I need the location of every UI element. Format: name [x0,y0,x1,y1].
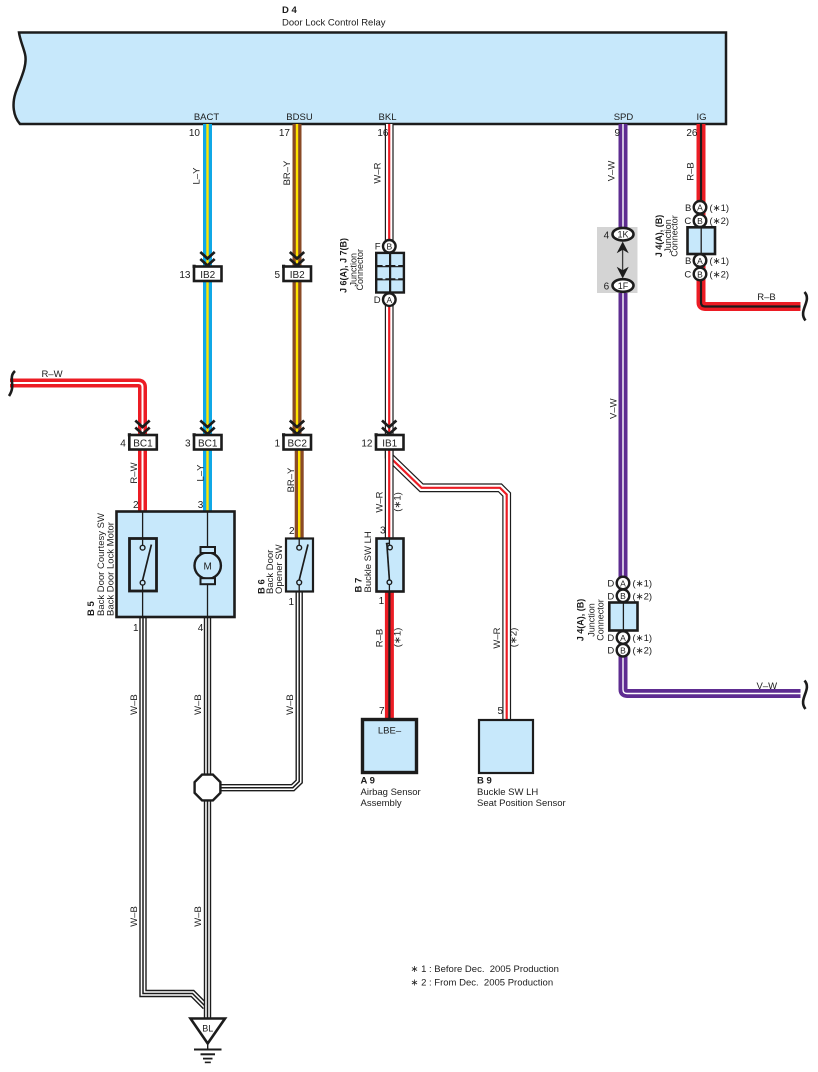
svg-text:∗ 2 : From Dec. 2005 Producti: ∗ 2 : From Dec. 2005 Production [411,978,554,989]
svg-text:R–W: R–W [41,369,62,380]
svg-text:(∗2): (∗2) [710,270,730,281]
svg-text:2: 2 [133,500,139,511]
svg-text:(∗1): (∗1) [633,579,653,590]
svg-text:B: B [620,591,626,601]
svg-text:17: 17 [279,128,291,139]
svg-text:SPD: SPD [614,112,634,123]
wire R-B IG column [701,124,801,307]
wire W-B from B6 pin1 to octagon [221,592,300,788]
svg-text:B: B [697,269,703,279]
svg-text:R–B: R–B [375,629,386,647]
svg-text:BDSU: BDSU [286,112,313,123]
svg-text:7: 7 [379,706,385,717]
svg-text:D: D [607,591,614,602]
svg-text:BC2: BC2 [287,439,307,450]
A9 Airbag Sensor Assembly [361,720,421,810]
svg-text:W–B: W–B [285,694,296,715]
svg-text:W–R: W–R [373,162,384,183]
svg-text:D 4: D 4 [282,5,298,16]
svg-text:5: 5 [497,706,503,717]
svg-text:∗ 1 : Before Dec. 2005 Produc: ∗ 1 : Before Dec. 2005 Production [411,964,559,975]
svg-text:1: 1 [379,596,385,607]
B9 Buckle SW LH Seat Position Sensor [477,720,566,809]
splice octagon [195,775,221,801]
svg-text:B: B [620,646,626,656]
svg-text:Connector: Connector [355,249,365,291]
wire W-B from B5 pin4 to ground [204,617,211,1019]
svg-text:W–B: W–B [193,906,204,927]
svg-text:W–B: W–B [193,694,204,715]
B7 Buckle SW LH [354,531,404,592]
torn edge left (R-W) [9,371,15,396]
svg-text:Connector: Connector [596,599,606,641]
svg-text:V–W: V–W [757,681,778,692]
svg-text:12: 12 [361,439,373,450]
svg-text:(∗1): (∗1) [710,203,730,214]
wire R-W from left torn edge [10,383,143,512]
svg-text:D: D [607,646,614,657]
svg-text:1: 1 [133,623,139,634]
svg-text:IB1: IB1 [382,439,397,450]
wire W-R branch to B9 [389,450,507,721]
svg-text:BACT: BACT [194,112,220,123]
wire W-B from B5 pin1 [143,617,206,1007]
svg-text:IB2: IB2 [200,270,215,281]
svg-text:Buckle SW LH: Buckle SW LH [477,787,538,798]
svg-text:4: 4 [604,230,610,241]
svg-text:BC1: BC1 [133,439,153,450]
svg-text:16: 16 [377,128,389,139]
svg-text:A: A [386,295,392,305]
svg-text:L–Y: L–Y [195,464,206,482]
svg-text:A: A [620,633,626,643]
svg-text:(∗1): (∗1) [392,628,403,648]
svg-text:Opener SW: Opener SW [274,544,285,594]
svg-text:BC1: BC1 [198,439,218,450]
svg-text:(∗1): (∗1) [633,633,653,644]
connector BC1 (3) [185,421,222,450]
svg-text:L–Y: L–Y [192,167,203,185]
svg-text:4: 4 [198,623,204,634]
svg-text:9: 9 [614,128,620,139]
svg-text:A: A [697,256,703,266]
svg-text:Connector: Connector [670,215,680,257]
svg-text:D: D [374,295,381,306]
wire V-W SPD column [623,124,801,694]
svg-text:J 4(A), (B): J 4(A), (B) [576,599,586,642]
wire R-B from B7 to A9 [385,592,394,720]
connector BC1 (4) [120,421,157,450]
svg-text:(∗1): (∗1) [710,256,730,267]
svg-text:R–B: R–B [686,162,697,180]
svg-text:6: 6 [604,282,610,293]
svg-text:Seat Position Sensor: Seat Position Sensor [477,798,566,809]
ground BL [191,1019,226,1063]
svg-text:D: D [607,579,614,590]
svg-text:10: 10 [189,128,201,139]
svg-text:3: 3 [380,526,386,537]
svg-text:W–B: W–B [129,694,140,715]
svg-text:R–W: R–W [129,462,140,483]
wire W-R vertical BKL column [385,124,394,539]
svg-text:A 9: A 9 [361,776,375,787]
svg-text:C: C [684,270,691,281]
svg-text:1: 1 [274,439,280,450]
B5 Back Door Courtesy SW / Back Door Lock Motor [86,512,235,618]
junction connector J6(A),J7(B) [339,238,404,306]
connector IB2 (13) [179,252,221,281]
B6 Back Door Opener SW [257,539,314,595]
svg-text:(∗2): (∗2) [710,216,730,227]
svg-text:Back Door Lock Motor: Back Door Lock Motor [106,522,117,616]
svg-text:F: F [375,242,381,253]
svg-text:B: B [685,256,691,267]
junction connector J4 upper (on IG wire) [654,201,729,281]
relay D4 box [14,33,726,125]
svg-text:LBE–: LBE– [378,726,402,737]
svg-text:1K: 1K [617,230,628,240]
svg-text:BL: BL [202,1024,213,1034]
svg-text:W–B: W–B [129,906,140,927]
wire BR-Y vertical BDSU column [297,124,299,539]
connector BC2 (1) [274,421,311,450]
svg-text:Door Lock Control Relay: Door Lock Control Relay [282,18,386,29]
svg-text:BR–Y: BR–Y [282,160,293,185]
svg-text:BR–Y: BR–Y [286,467,297,492]
svg-text:13: 13 [179,270,191,281]
svg-text:BKL: BKL [379,112,397,123]
svg-text:Assembly: Assembly [361,798,402,809]
svg-text:J 6(A), J 7(B): J 6(A), J 7(B) [339,238,349,293]
svg-text:26: 26 [686,128,698,139]
svg-text:W–R: W–R [375,491,386,512]
svg-text:D: D [607,633,614,644]
svg-text:3: 3 [198,500,204,511]
torn edge right (V-W) [803,681,807,710]
svg-text:IG: IG [696,112,706,123]
svg-text:R–B: R–B [757,292,775,303]
svg-text:5: 5 [274,270,280,281]
connector IB2 (5) [274,252,311,281]
junction connector J4 lower (on SPD wire) [576,577,653,657]
svg-text:(∗2): (∗2) [509,628,520,648]
svg-text:V–W: V–W [608,398,619,419]
svg-text:(∗1): (∗1) [392,492,403,512]
svg-text:(∗2): (∗2) [633,591,653,602]
svg-text:Airbag Sensor: Airbag Sensor [361,787,421,798]
svg-text:IB2: IB2 [290,270,305,281]
svg-text:A: A [620,578,626,588]
svg-text:1: 1 [288,597,294,608]
svg-text:4: 4 [120,439,126,450]
svg-text:V–W: V–W [607,161,618,182]
svg-text:M: M [204,561,212,572]
gray pass box with 1K/1F [597,227,638,293]
svg-text:B: B [386,242,392,252]
svg-text:W–R: W–R [492,627,503,648]
svg-text:1F: 1F [618,281,629,291]
torn edge right (R-B) [803,292,807,321]
svg-text:B: B [685,203,691,214]
svg-text:Buckle SW LH: Buckle SW LH [363,531,374,592]
svg-text:B 9: B 9 [477,776,492,787]
svg-text:(∗2): (∗2) [633,646,653,657]
svg-text:2: 2 [289,526,295,537]
svg-text:C: C [684,216,691,227]
connector IB1 (12) [361,421,403,450]
svg-text:A: A [697,203,703,213]
svg-text:3: 3 [185,439,191,450]
wire L-Y vertical BACT column [203,124,212,512]
svg-text:B: B [697,216,703,226]
